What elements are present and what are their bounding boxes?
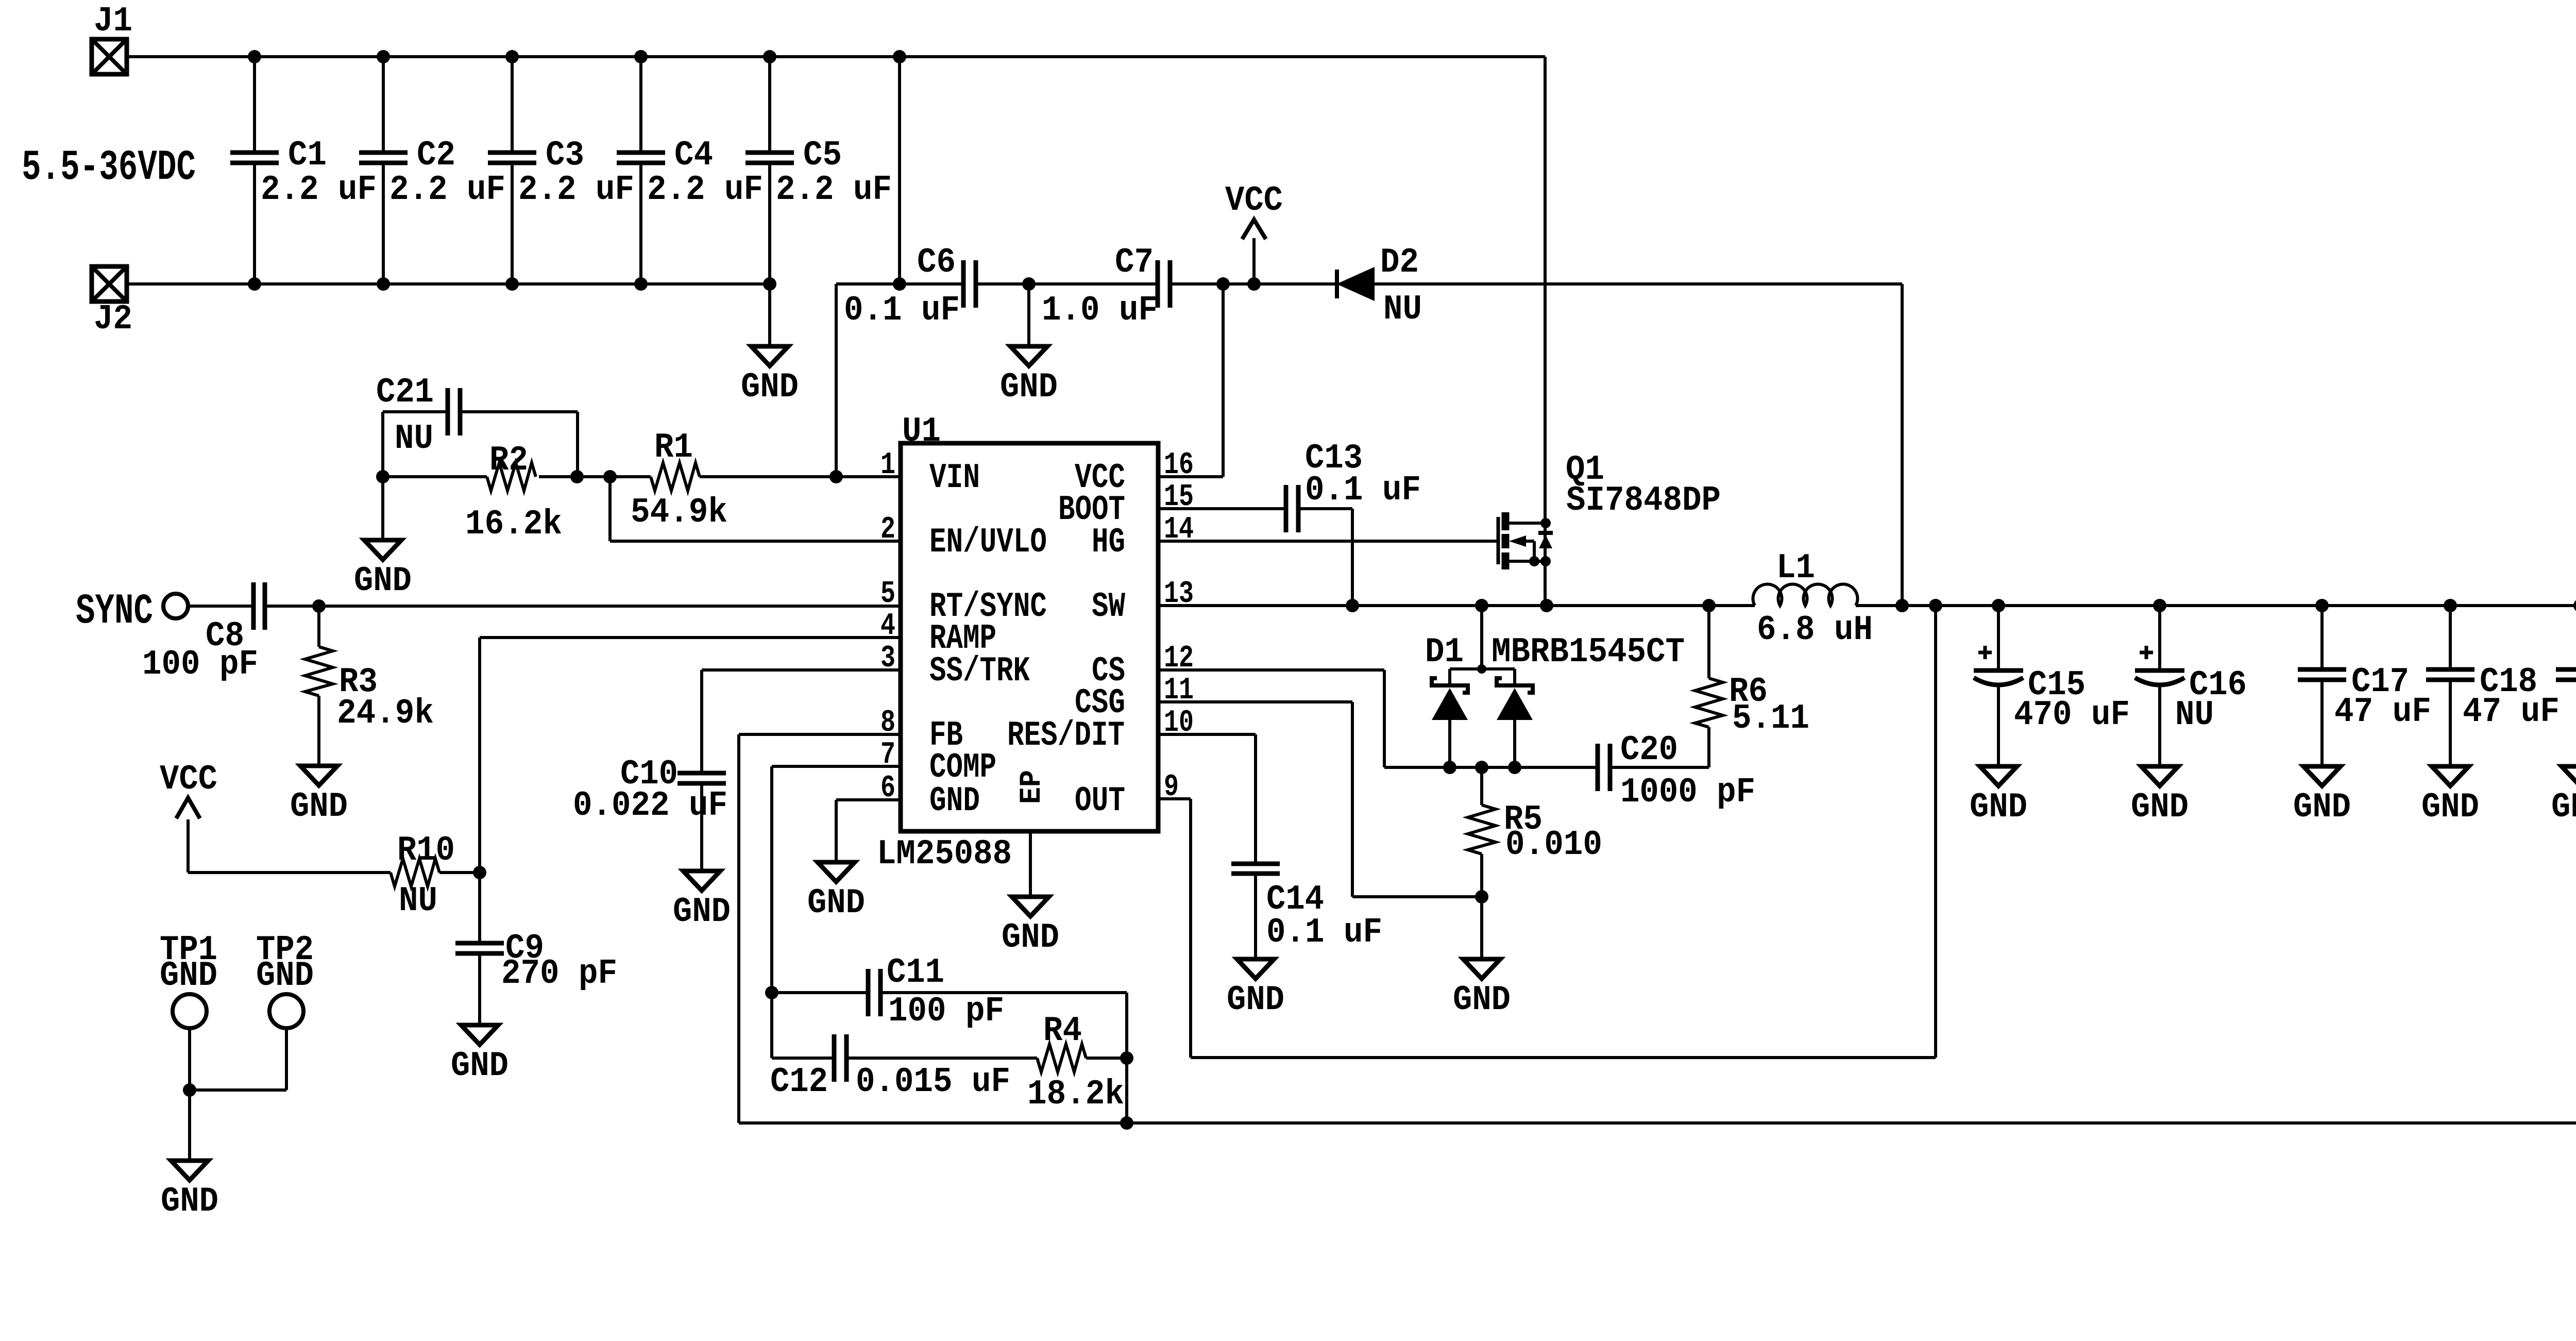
svg-text:0.015 uF: 0.015 uF: [856, 1062, 1010, 1102]
svg-text:R4: R4: [1043, 1011, 1082, 1051]
svg-text:5.11: 5.11: [1732, 699, 1809, 739]
svg-text:OUT: OUT: [1075, 781, 1125, 821]
svg-text:47 uF: 47 uF: [2463, 692, 2560, 732]
svg-text:C2: C2: [417, 136, 455, 175]
svg-text:GND: GND: [2293, 787, 2351, 827]
svg-text:U1: U1: [902, 412, 941, 451]
svg-text:C21: C21: [376, 373, 434, 412]
svg-text:470 uF: 470 uF: [2014, 695, 2130, 735]
svg-text:C11: C11: [887, 953, 944, 993]
svg-text:3: 3: [880, 641, 895, 676]
svg-text:NU: NU: [395, 419, 433, 459]
svg-text:GND: GND: [2131, 787, 2189, 827]
svg-text:J2: J2: [94, 299, 132, 339]
svg-text:GND: GND: [451, 1046, 509, 1086]
svg-text:GND: GND: [929, 781, 980, 821]
svg-text:GND: GND: [354, 561, 412, 601]
svg-text:47 uF: 47 uF: [2334, 692, 2431, 732]
svg-text:2.2 uF: 2.2 uF: [776, 170, 892, 210]
svg-text:18.2k: 18.2k: [1027, 1075, 1124, 1114]
svg-text:VCC: VCC: [160, 760, 217, 799]
svg-text:NU: NU: [2175, 695, 2214, 735]
svg-text:NU: NU: [399, 881, 437, 921]
svg-text:270 pF: 270 pF: [501, 954, 617, 994]
svg-text:GND: GND: [1970, 787, 2027, 827]
svg-text:1: 1: [880, 448, 895, 483]
svg-text:R10: R10: [397, 831, 455, 870]
svg-text:5: 5: [880, 577, 895, 612]
svg-text:GND: GND: [741, 367, 799, 407]
svg-text:2.2 uF: 2.2 uF: [389, 170, 505, 210]
svg-text:0.1 uF: 0.1 uF: [1266, 913, 1382, 952]
svg-text:2.2 uF: 2.2 uF: [647, 170, 763, 210]
svg-text:2.2 uF: 2.2 uF: [261, 170, 377, 210]
svg-text:GND: GND: [2551, 787, 2576, 827]
svg-text:54.9k: 54.9k: [631, 493, 727, 532]
svg-text:C1: C1: [288, 136, 327, 175]
svg-text:100 pF: 100 pF: [888, 992, 1004, 1031]
svg-text:16.2k: 16.2k: [465, 505, 562, 544]
svg-text:GND: GND: [256, 956, 314, 996]
svg-text:1.0 uF: 1.0 uF: [1042, 291, 1158, 330]
svg-text:EP: EP: [1015, 770, 1049, 804]
svg-text:SS/TRK: SS/TRK: [929, 651, 1030, 691]
svg-text:C20: C20: [1620, 730, 1678, 770]
svg-text:SW: SW: [1092, 587, 1125, 627]
svg-text:C12: C12: [770, 1062, 828, 1102]
svg-text:GND: GND: [160, 956, 217, 996]
svg-text:0.1 uF: 0.1 uF: [1305, 471, 1421, 510]
svg-text:C7: C7: [1115, 243, 1154, 282]
svg-text:C4: C4: [674, 136, 713, 175]
svg-text:GND: GND: [1227, 980, 1284, 1020]
svg-text:GND: GND: [161, 1182, 218, 1221]
svg-text:C5: C5: [803, 136, 842, 175]
svg-text:L1: L1: [1776, 548, 1815, 588]
svg-text:24.9k: 24.9k: [337, 694, 434, 733]
svg-text:VCC: VCC: [1225, 181, 1283, 221]
svg-text:LM25088: LM25088: [877, 834, 1012, 874]
svg-text:D1: D1: [1425, 632, 1464, 672]
svg-text:HG: HG: [1092, 523, 1125, 562]
svg-text:1000 pF: 1000 pF: [1620, 773, 1755, 812]
svg-text:4: 4: [880, 609, 895, 644]
svg-text:2: 2: [880, 512, 895, 547]
svg-text:R2: R2: [489, 441, 528, 480]
svg-text:5.5-36VDC: 5.5-36VDC: [22, 143, 196, 192]
svg-text:GND: GND: [2421, 787, 2479, 827]
svg-text:2.2 uF: 2.2 uF: [518, 170, 634, 210]
svg-text:GND: GND: [807, 883, 865, 923]
svg-text:NU: NU: [1383, 290, 1422, 329]
svg-text:C3: C3: [546, 136, 584, 175]
svg-text:SYNC: SYNC: [76, 587, 153, 635]
svg-text:J1: J1: [94, 2, 132, 41]
svg-text:C6: C6: [917, 243, 956, 282]
svg-text:D2: D2: [1380, 243, 1419, 282]
svg-text:VIN: VIN: [929, 458, 980, 498]
svg-text:MBRB1545CT: MBRB1545CT: [1492, 632, 1685, 672]
svg-text:0.1 uF: 0.1 uF: [844, 291, 960, 330]
svg-text:0.010: 0.010: [1505, 825, 1602, 865]
svg-text:RES/DIT: RES/DIT: [1007, 716, 1125, 756]
svg-text:GND: GND: [1002, 918, 1059, 958]
svg-text:SI7848DP: SI7848DP: [1566, 481, 1721, 521]
svg-text:R1: R1: [654, 428, 693, 467]
svg-text:6.8 uH: 6.8 uH: [1757, 610, 1873, 650]
svg-text:100 pF: 100 pF: [142, 645, 258, 684]
svg-text:GND: GND: [1453, 980, 1511, 1020]
svg-text:0.022 uF: 0.022 uF: [573, 786, 727, 826]
svg-text:GND: GND: [673, 892, 731, 932]
svg-text:EN/UVLO: EN/UVLO: [929, 523, 1047, 562]
svg-text:GND: GND: [290, 787, 348, 827]
svg-text:GND: GND: [1000, 367, 1058, 407]
